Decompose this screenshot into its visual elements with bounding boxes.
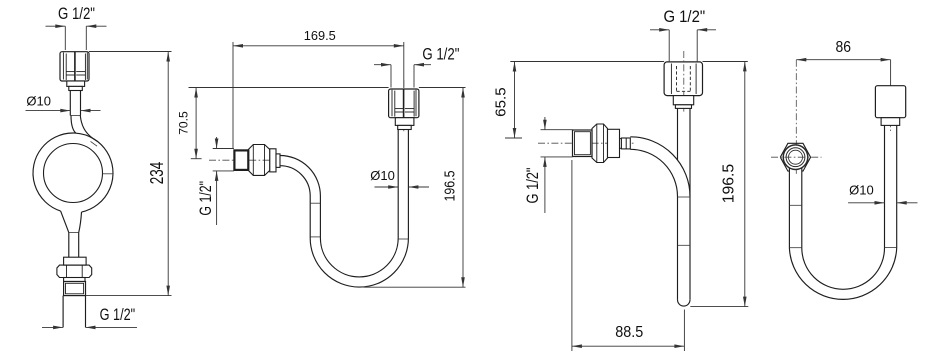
fig3 nut collar	[673, 96, 693, 105]
fig2 nut step	[398, 125, 412, 129]
fig1 bottom collar	[64, 257, 87, 265]
fig4 coupling nut side view	[875, 86, 905, 118]
svg-text:86: 86	[836, 39, 852, 56]
fig1 nut step	[69, 86, 83, 90]
fig1 bottom thread box	[64, 282, 86, 296]
fig3 nut step	[675, 105, 691, 109]
svg-text:196.5: 196.5	[442, 171, 459, 202]
fig3 dimension G 1/2" top extension lines	[668, 30, 670, 62]
svg-text:G 1/2": G 1/2"	[197, 181, 215, 216]
fig2 nut centerline	[403, 80, 405, 133]
fig3 pipe ticks	[678, 196, 691, 198]
fig3 dimension 88.5 extension lines	[571, 160, 573, 351]
fig2 dimension 70.5 line	[195, 88, 197, 159]
fig2 male thread box	[234, 150, 248, 170]
fig2 dimension G 1/2" top extension lines	[390, 65, 392, 88]
fig2 dimension G 1/2" top lines	[374, 64, 391, 66]
svg-text:Ø10: Ø10	[370, 168, 395, 183]
fig1 pipe tick	[70, 115, 80, 117]
fig3 pipe bottom cap	[678, 300, 691, 306]
svg-text:G 1/2": G 1/2"	[663, 8, 705, 26]
fig1 ring outer circle	[33, 133, 113, 212]
fig3 dimension 65.5 extension line	[505, 137, 522, 139]
fig3 top coupling nut	[664, 62, 702, 96]
svg-text:Ø10: Ø10	[849, 183, 874, 198]
fig1 dimension Ø10 lines	[26, 110, 71, 112]
fig3 dimension G 1/2" top lines	[650, 29, 669, 31]
fig4 nut collar	[881, 118, 900, 126]
fig4 dimension 86 line	[796, 59, 890, 61]
fig2 pipe boundary outer	[280, 130, 398, 277]
fig4 hex horizontal centerline	[771, 156, 822, 158]
svg-text:G 1/2": G 1/2"	[422, 45, 459, 63]
fig2 dimension 70.5 extension line	[191, 158, 202, 160]
fig1 inlet pipe bend edges	[71, 116, 76, 134]
fig4 dimension Ø10 lines	[848, 202, 884, 204]
svg-text:G 1/2": G 1/2"	[100, 306, 136, 324]
svg-text:169.5: 169.5	[304, 28, 336, 43]
fig4 hexagon head-on	[780, 143, 810, 171]
fig4 U pipe outer edge	[789, 125, 896, 299]
fig3 bottom leader line	[690, 306, 748, 308]
fig3 neck	[620, 139, 622, 149]
svg-text:G 1/2": G 1/2"	[58, 5, 95, 23]
fig2 top coupling nut (knurled)	[389, 89, 419, 118]
fig1 ring inner circle	[44, 144, 103, 203]
fig1 ring junction tick	[91, 141, 98, 146]
fig4 U pipe inner edge	[802, 125, 885, 289]
fig2 dimension G 1/2" left extension lines	[213, 148, 234, 150]
svg-text:234: 234	[147, 162, 167, 185]
fig2 bottom leader line	[364, 286, 466, 288]
svg-text:65.5: 65.5	[493, 87, 510, 117]
svg-text:196.5: 196.5	[720, 164, 737, 203]
fig1 outlet stem edges	[61, 211, 69, 257]
fig2 fitting centerline	[209, 159, 280, 161]
fig3 male thread box	[573, 130, 593, 157]
svg-text:G 1/2": G 1/2"	[524, 167, 542, 203]
fig3 washer	[608, 129, 620, 157]
fig3 fitting centerline	[538, 142, 634, 144]
fig1 dimension G 1/2" top lines	[46, 25, 66, 27]
fig3 dimension 65.5 line	[514, 62, 516, 139]
fig4 pipe ticks	[789, 204, 801, 206]
fig4 hex thread circles	[783, 145, 808, 170]
fig1 top pipe section	[69, 91, 71, 116]
fig3 vertical pipe	[689, 108, 691, 299]
fig2 dimension Ø10 lines	[375, 186, 399, 188]
fig1 dimension 234 leaders	[89, 51, 172, 53]
fig2 dimension 169.5 extension lines	[232, 42, 234, 149]
fig2 pipe ticks	[310, 202, 320, 204]
fig3 nipple box	[621, 138, 630, 149]
fig2 neck	[276, 154, 280, 168]
fig3 dimension G 1/2" left extension lines	[541, 129, 573, 131]
fig1 nut collar	[67, 81, 85, 86]
fig2 dimension 169.5 line	[233, 45, 404, 47]
fig1 ring right tick	[103, 173, 114, 175]
fig2 pipe boundary inner	[280, 130, 408, 288]
fig1 dimension G 1/2" bottom lines	[42, 326, 63, 328]
fig3 dimension 196.5 line	[744, 61, 746, 306]
fig2 top reference line	[189, 87, 389, 89]
fig2 dimension 196.5 line	[462, 88, 464, 288]
fig2 dimension G 1/2" left lines	[216, 137, 218, 149]
svg-text:88.5: 88.5	[615, 324, 643, 341]
fig1 bottom small collar	[64, 278, 85, 282]
fig2 nut collar	[395, 118, 414, 126]
fig1 dimension 234 line	[167, 52, 169, 296]
fig4 right extension line	[890, 60, 892, 86]
fig3 nut centerline	[683, 51, 685, 112]
fig3 side pipe bend edges	[630, 137, 690, 197]
fig1 stem tick	[69, 232, 79, 234]
fig4 nut centerline	[890, 80, 892, 131]
svg-text:Ø10: Ø10	[26, 93, 51, 108]
fig2 washer	[270, 149, 276, 172]
fig1 top coupling nut (knurled)	[60, 52, 89, 81]
fig1 bottom thread pipe	[62, 296, 64, 328]
fig1 bottom hex nut	[57, 265, 92, 277]
fig3 top reference line	[510, 61, 664, 63]
fig2 hex nut	[248, 145, 269, 176]
fig3 hex nut	[592, 124, 608, 163]
fig4 left centerline extension	[795, 60, 797, 174]
svg-text:70.5: 70.5	[177, 111, 191, 135]
fig3 dimension G 1/2" left lines	[544, 117, 546, 130]
fig3 dimension 88.5 line	[572, 345, 685, 347]
